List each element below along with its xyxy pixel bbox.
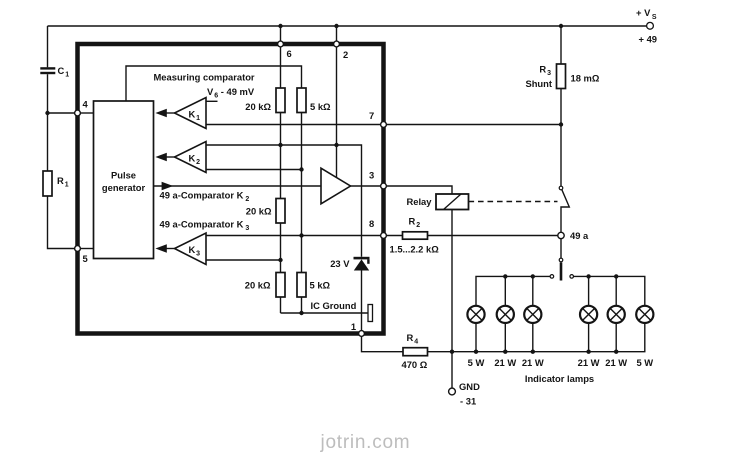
resistor R4 <box>403 348 428 356</box>
wire pin 1 to bottom rail <box>362 336 404 351</box>
IC ground terminal bar <box>368 305 373 322</box>
svg-text:4: 4 <box>83 99 89 110</box>
lamp L3 21W <box>524 276 541 354</box>
svg-text:Indicator lamps: Indicator lamps <box>525 373 594 384</box>
wire 49a to lower switch <box>560 239 562 259</box>
pin 6 <box>278 41 284 47</box>
pin 7 <box>381 122 387 128</box>
svg-text:generator: generator <box>102 182 146 193</box>
svg-text:2: 2 <box>343 49 348 60</box>
wire R2 to terminal 49a <box>428 235 558 237</box>
wire branch to pin 4 <box>48 112 75 114</box>
lamp L5 21W <box>608 276 625 354</box>
wire 5k column middle <box>301 113 303 273</box>
resistor 5k bottom <box>297 273 306 298</box>
resistor R1 <box>43 171 52 196</box>
svg-text:20 kΩ: 20 kΩ <box>245 280 271 291</box>
resistor 20k bottom <box>276 273 285 298</box>
svg-text:7: 7 <box>369 110 374 121</box>
switch lower blade <box>560 262 563 280</box>
wire K2 upper input to divider and zener branch <box>206 145 362 257</box>
switch upper contact <box>559 186 563 190</box>
pin 5 <box>75 246 81 252</box>
svg-text:23 V: 23 V <box>330 258 350 269</box>
node output arrow <box>162 182 174 191</box>
node junction shunt / supply rail <box>559 24 563 28</box>
svg-text:1: 1 <box>351 321 356 332</box>
lamp L6 5W <box>636 306 653 323</box>
IC boundary box <box>78 44 384 334</box>
resistor 20k middle <box>276 199 285 224</box>
svg-text:470 Ω: 470 Ω <box>402 359 428 370</box>
svg-text:5 W: 5 W <box>636 357 653 368</box>
lamp L2 21W <box>497 276 514 354</box>
svg-text:3: 3 <box>369 170 374 181</box>
svg-text:Relay: Relay <box>406 196 432 207</box>
resistor R2 <box>403 232 428 239</box>
zener diode 23V <box>354 257 370 271</box>
switch lower left contact <box>550 275 554 279</box>
pin 1 <box>359 331 365 337</box>
pin 2 <box>334 41 340 47</box>
resistor 5k top <box>297 88 306 113</box>
resistor R3 shunt <box>557 64 566 89</box>
svg-text:Shunt: Shunt <box>525 78 552 89</box>
terminal +Vs <box>647 22 654 29</box>
node junction pin8 line / 5k column <box>299 233 303 237</box>
wire IC ground rail <box>281 312 369 314</box>
wire left vertical from supply to C1 <box>47 26 49 67</box>
node junction ground rail / 5k column <box>299 311 303 315</box>
node junction pin2 / supply rail <box>334 24 338 28</box>
wire 20k column lower <box>280 223 282 273</box>
wire R1 to pin 5 <box>48 196 75 249</box>
pin 6 stub to supply <box>280 26 282 42</box>
node junction top bus lamp 2 <box>503 274 507 278</box>
svg-text:6: 6 <box>287 48 292 59</box>
wire pin 3 to relay <box>386 186 452 194</box>
node junction K3 lower input / 20k column <box>278 258 282 262</box>
op-amp U1 <box>321 168 381 204</box>
node junction pin7 line / shunt <box>559 122 563 126</box>
wire pulse generator output to op-amp <box>154 185 322 187</box>
wire pin 7 to shunt node <box>386 124 561 126</box>
svg-text:5: 5 <box>83 253 88 264</box>
svg-text:5 kΩ: 5 kΩ <box>310 280 331 291</box>
svg-text:21 W: 21 W <box>494 357 516 368</box>
svg-text:Pulse: Pulse <box>111 170 136 181</box>
wire pin2 column to op-amp <box>336 47 338 178</box>
pin 2 stub to supply <box>336 26 338 42</box>
switch lower right contact <box>570 275 574 279</box>
wire K3 lower input to 20k column <box>206 259 281 261</box>
lamp L4 21W <box>580 276 597 354</box>
svg-text:18 mΩ: 18 mΩ <box>571 73 600 84</box>
wire shunt node down to switch <box>560 125 562 187</box>
comparator K2 <box>155 142 206 173</box>
terminal GND -31 <box>449 388 456 395</box>
pin 3 <box>381 183 387 189</box>
svg-text:IC Ground: IC Ground <box>311 300 357 311</box>
svg-text:5 kΩ: 5 kΩ <box>310 101 331 112</box>
node junction pin6 / supply rail <box>278 24 282 28</box>
wire K2 lower input to 5k column <box>206 169 302 171</box>
svg-text:1.5...2.2 kΩ: 1.5...2.2 kΩ <box>390 244 440 255</box>
relay K1 coil <box>436 194 469 210</box>
pulse generator block <box>94 101 154 259</box>
node junction relay wire / bottom rail <box>450 350 454 354</box>
wire lamp top bus right <box>574 276 645 306</box>
wire lamp top bus left <box>476 276 550 306</box>
lamp L1 5W <box>467 306 484 354</box>
svg-text:- 31: - 31 <box>460 396 476 407</box>
terminal 49a <box>558 232 564 238</box>
svg-text:49 a: 49 a <box>570 230 589 241</box>
pin 4 <box>75 110 81 116</box>
svg-text:21 W: 21 W <box>522 357 544 368</box>
svg-text:Measuring comparator: Measuring comparator <box>154 72 255 83</box>
node junction K2 line / pin2 column <box>334 143 338 147</box>
node junction K2 lower input / 5k column <box>299 167 303 171</box>
node junction top bus lamp 5 <box>614 274 618 278</box>
svg-text:jotrin.com: jotrin.com <box>320 432 411 453</box>
wire supply to R3 <box>560 26 562 64</box>
wire 5k bottom to ground rail <box>301 297 303 313</box>
wire pin6 to 20k <box>280 47 282 88</box>
svg-text:21 W: 21 W <box>605 357 627 368</box>
wire 20k column upper <box>280 113 282 199</box>
node junction K2 input / 20k column <box>278 143 282 147</box>
switch upper blade <box>561 190 569 233</box>
switch lower pivot contact <box>559 258 563 262</box>
wire feedback pulse generator to divider top <box>126 66 302 101</box>
svg-text:21 W: 21 W <box>578 357 600 368</box>
svg-text:20 kΩ: 20 kΩ <box>246 206 272 217</box>
wire pin5 to pulse generator <box>80 248 93 250</box>
wire zener to pin 1 <box>361 271 363 332</box>
node junction C1/R1/pin4 <box>45 111 49 115</box>
wire pin 8 to R2 <box>386 235 402 237</box>
wire K3 upper input to pin 8 <box>206 235 381 237</box>
wire C1 to R1 <box>47 74 49 171</box>
wire pin4 to pulse generator <box>80 112 93 114</box>
node V6 reference stub of K1 <box>206 100 218 102</box>
wire relay to ground terminal <box>451 210 453 389</box>
svg-text:8: 8 <box>369 218 374 229</box>
wire R3 to pin7 node <box>560 89 562 125</box>
wire 20k bottom to ground rail <box>280 297 282 313</box>
capacitor C1 <box>40 67 55 74</box>
dashed link relay to switch <box>469 201 558 203</box>
node junction top bus lamp 4 <box>586 274 590 278</box>
svg-text:GND: GND <box>459 381 480 392</box>
node junction top bus lamp 3 <box>531 274 535 278</box>
svg-text:20 kΩ: 20 kΩ <box>245 101 271 112</box>
wire K1 input to pin 7 <box>206 124 381 126</box>
svg-text:+ 49: + 49 <box>639 34 658 45</box>
resistor 20k top <box>276 88 285 113</box>
comparator K1 <box>155 98 206 129</box>
svg-text:5 W: 5 W <box>468 357 485 368</box>
wire bottom rail <box>428 323 645 352</box>
wire top supply rail <box>48 25 647 27</box>
pin 8 <box>381 233 387 239</box>
comparator K3 <box>155 233 206 265</box>
